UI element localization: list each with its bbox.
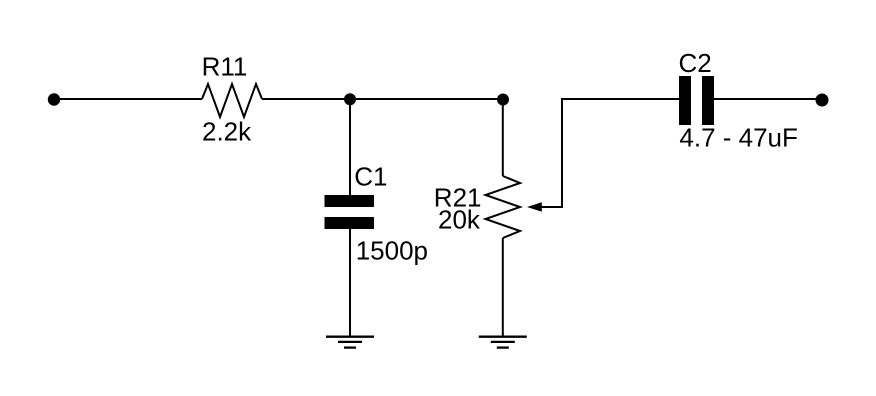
wire [541, 99, 679, 207]
svg-text:C2: C2 [679, 48, 712, 78]
ground [326, 337, 374, 348]
svg-text:C1: C1 [354, 162, 387, 192]
potentiometer R21 wiper arrow [527, 202, 542, 212]
svg-text:4.7 - 47uF: 4.7 - 47uF [679, 122, 798, 152]
label C1 [354, 162, 387, 192]
potentiometer R21 zigzag [486, 176, 521, 238]
wire [349, 99, 351, 196]
resistor R11 zigzag [202, 84, 262, 117]
svg-text:20k: 20k [438, 205, 481, 235]
value 20k [438, 205, 481, 235]
wire [262, 98, 503, 100]
value 2.2k [202, 117, 252, 147]
svg-text:2.2k: 2.2k [202, 117, 252, 147]
value 1500p [356, 236, 428, 266]
svg-text:R11: R11 [202, 52, 248, 82]
node A junction dot [344, 93, 356, 105]
label C2 [679, 48, 712, 78]
ground [479, 337, 527, 348]
label R11 [202, 52, 248, 82]
value 4.7 - 47uF [679, 122, 798, 152]
capacitor C2 plates [679, 76, 714, 125]
capacitor C1 plates [325, 195, 375, 229]
wire [502, 238, 504, 337]
wire [714, 98, 816, 100]
label R21 [434, 182, 482, 212]
wire [54, 98, 202, 100]
node IN terminal dot [48, 93, 60, 105]
svg-text:1500p: 1500p [356, 236, 428, 266]
node B junction dot [497, 94, 509, 106]
wire [349, 229, 351, 337]
wire [502, 99, 504, 176]
node OUT terminal dot [816, 94, 829, 107]
